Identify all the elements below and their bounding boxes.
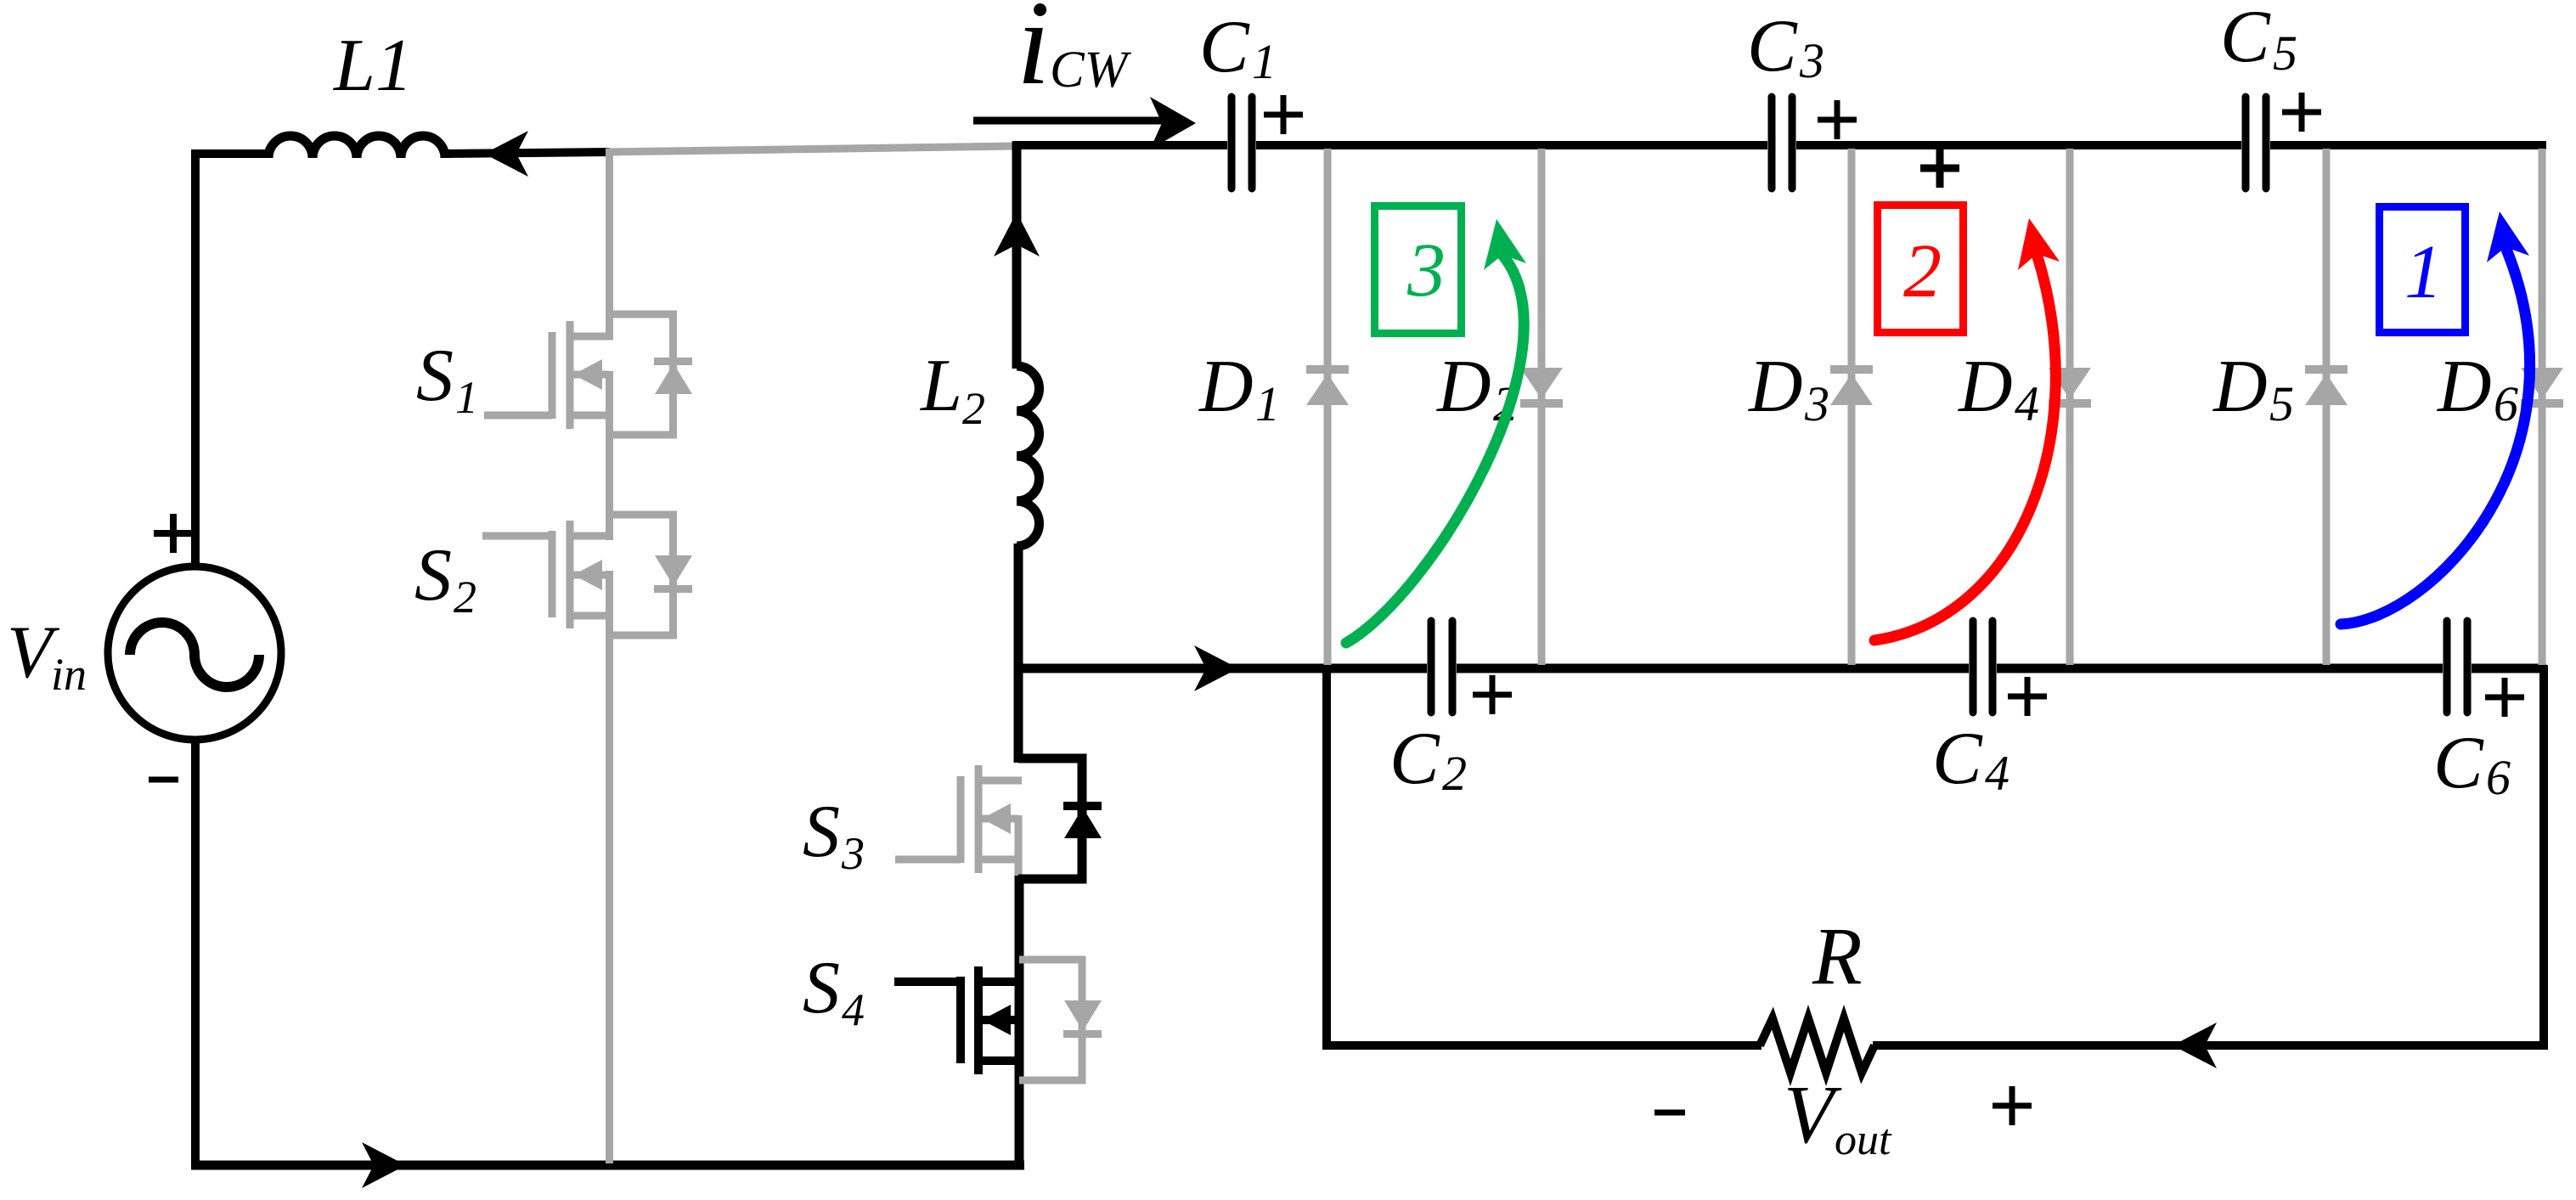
wire: L2 branch vertical from top rail with up arrowhead — [994, 142, 1040, 369]
svg-text:2: 2 — [1442, 746, 1467, 801]
wire: D3 branch rail — [1848, 149, 1856, 665]
current arrow iCW above top rail — [973, 97, 1196, 149]
label R — [1812, 910, 1863, 1001]
wire: output loop bottom left segment — [1322, 1041, 1761, 1050]
diode D2 (down) — [1520, 368, 1563, 408]
diode D4 (down) — [2049, 368, 2091, 408]
label Vin — [7, 611, 87, 700]
svg-text:S: S — [414, 534, 452, 617]
svg-text:out: out — [1835, 1116, 1892, 1164]
AC source Vin — [108, 566, 281, 740]
wire: Vin - terminal down to bottom-left corner — [191, 738, 200, 1165]
transistor S1 (gray, body diode up) — [484, 314, 692, 435]
minus sign Vin — [149, 777, 178, 783]
label Vout — [1784, 1069, 1892, 1164]
label S2 — [414, 534, 476, 623]
label D4 — [1958, 346, 2039, 431]
svg-text:1: 1 — [455, 372, 478, 423]
svg-text:4: 4 — [1985, 746, 2010, 801]
plus sign Vin — [154, 514, 193, 553]
loop number 2 — [1903, 229, 1942, 313]
svg-text:1: 1 — [1255, 376, 1280, 431]
plus sign C6 — [2485, 678, 2524, 717]
wire: top rail from C3 to C5 — [1796, 141, 2241, 149]
wire: mid rail from C4 to C6 — [1997, 664, 2443, 673]
loop box 3 (green) — [1375, 206, 1462, 334]
svg-text:L1: L1 — [332, 25, 413, 107]
wire: D5 branch rail — [2323, 149, 2331, 665]
svg-text:R: R — [1812, 910, 1863, 1001]
svg-text:D: D — [2212, 346, 2268, 428]
wire: D1 branch rail — [1324, 149, 1332, 665]
resistor R — [1760, 1018, 1874, 1073]
svg-text:5: 5 — [2269, 376, 2294, 431]
svg-text:3: 3 — [1799, 33, 1824, 88]
svg-text:C: C — [1389, 718, 1440, 800]
svg-text:V: V — [1784, 1069, 1842, 1160]
wire: mid rail from C2 to C4 — [1457, 664, 1969, 673]
wire: D6 branch rail — [2539, 149, 2546, 665]
svg-text:C: C — [1747, 5, 1798, 87]
svg-text:in: in — [51, 649, 87, 700]
svg-text:CW: CW — [1050, 42, 1132, 99]
svg-text:C: C — [2433, 722, 2484, 804]
svg-text:2: 2 — [454, 572, 476, 623]
label L1 — [332, 25, 413, 107]
label S3 — [803, 791, 865, 879]
label D1 — [1198, 346, 1280, 431]
wire: gray S-branch between S1 and S2 — [606, 431, 613, 540]
wire: gray S1/S2 branch vertical, top rail to S1 drain — [606, 149, 613, 340]
svg-text:2: 2 — [962, 383, 985, 434]
svg-text:4: 4 — [2015, 376, 2039, 431]
loop arrow 3 (green) — [1346, 219, 1526, 643]
label C4 — [1932, 718, 2010, 801]
label C2 — [1389, 718, 1467, 801]
svg-text:S: S — [803, 947, 840, 1029]
wire: L2 to mid-rail junction and down to S3 drain — [1014, 544, 1023, 763]
capacitor C3 — [1772, 97, 1792, 189]
capacitor C4 — [1973, 621, 1993, 713]
label D6 — [2437, 346, 2518, 431]
svg-text:D: D — [1748, 346, 1803, 428]
diode D5 (up) — [2305, 365, 2348, 405]
svg-text:C: C — [1932, 718, 1983, 800]
wire: output loop left vertical from D1 node — [1322, 668, 1331, 1045]
loop arrow 2 (red) — [1874, 218, 2060, 640]
wire: mid rail from C6 to right corner — [2472, 664, 2546, 673]
svg-text:D: D — [2437, 346, 2492, 428]
label D5 — [2212, 346, 2294, 431]
capacitor C1 — [1232, 97, 1252, 189]
svg-text:3: 3 — [1804, 376, 1829, 431]
label D3 — [1748, 346, 1829, 431]
svg-text:6: 6 — [2494, 376, 2518, 431]
wire: gray S-branch from S2 source down to bottom rail — [606, 632, 613, 1163]
transistor S3 (gray body, black diode conducting) — [895, 758, 1102, 879]
wire: gray top rail from S-branch node to L2 branch node — [606, 146, 1017, 152]
wire: D4 branch rail — [2066, 149, 2074, 665]
wire: black main from S3 source through S4 down to bottom rail corner — [1015, 876, 1024, 1169]
svg-text:6: 6 — [2486, 750, 2511, 805]
diode D1 (up) — [1306, 365, 1349, 405]
wire: output loop bottom right segment with left arrowhead — [1873, 1023, 2546, 1068]
label iCW — [1017, 0, 1132, 110]
wire: L1 to S-branch node with left arrowhead — [443, 131, 610, 177]
plus sign Vout — [1993, 1086, 2032, 1125]
loop box 2 (red) — [1878, 206, 1964, 333]
svg-text:3: 3 — [1406, 228, 1446, 313]
wire: output loop right vertical — [2539, 665, 2548, 1050]
plus sign C3 — [1818, 100, 1857, 139]
wire: bottom rail from Vin loop to S4 source with right arrowhead — [191, 1142, 1024, 1188]
svg-text:S: S — [803, 791, 840, 873]
capacitor C2 — [1431, 621, 1452, 713]
wire: mid rail from L2 junction to C2 with right arrowhead — [1017, 645, 1427, 691]
plus sign C1 — [1264, 95, 1303, 134]
wire: D2 branch rail — [1538, 149, 1546, 665]
loop number 1 — [2404, 230, 2443, 314]
minus sign Vout — [1654, 1110, 1685, 1116]
loop number 3 — [1406, 228, 1446, 313]
label L2 — [919, 345, 985, 434]
plus sign C5 — [2282, 93, 2321, 132]
svg-text:D: D — [1198, 346, 1254, 428]
svg-text:S: S — [416, 335, 454, 417]
svg-text:5: 5 — [2273, 25, 2297, 81]
plus sign C4 — [2008, 677, 2047, 716]
plus sign at D4 top node — [1920, 149, 1959, 188]
loop box 1 (blue) — [2380, 207, 2466, 333]
svg-text:2: 2 — [1903, 229, 1942, 313]
transistor S4 (black active, gray body diode down) — [894, 960, 1102, 1080]
svg-text:L: L — [919, 345, 962, 427]
svg-text:4: 4 — [842, 984, 865, 1035]
wire: top rail from C5 to top-right corner — [2270, 141, 2546, 149]
diode D6 (down) — [2521, 368, 2563, 408]
label S4 — [803, 947, 865, 1035]
label S1 — [416, 335, 478, 423]
svg-text:1: 1 — [1252, 34, 1277, 89]
svg-text:D: D — [1958, 346, 2013, 428]
svg-text:D: D — [1436, 346, 1491, 428]
label C6 — [2433, 722, 2511, 805]
svg-text:C: C — [1199, 6, 1250, 88]
inductor L2 — [1017, 366, 1040, 546]
label C3 — [1747, 5, 1824, 88]
transistor S2 (gray, flipped, body diode down) — [482, 515, 692, 635]
inductor L1 — [268, 136, 445, 158]
wire: top rail from L2 node to C1 — [1012, 141, 1227, 149]
label C5 — [2220, 0, 2297, 81]
capacitor C6 — [2447, 621, 2467, 713]
wire: left vertical from top rail down to Vin + terminal — [191, 149, 200, 566]
svg-text:1: 1 — [2404, 230, 2443, 314]
capacitor C5 — [2246, 97, 2266, 189]
diode D3 (up) — [1830, 365, 1873, 405]
label C1 — [1199, 6, 1277, 89]
wire: top-left rail from corner to L1 — [191, 149, 270, 158]
wire: top rail from C1 to C3 — [1256, 141, 1767, 149]
label D2 — [1436, 346, 1518, 431]
loop arrow 1 (blue) — [2341, 211, 2530, 624]
svg-text:3: 3 — [841, 828, 865, 879]
plus sign C2 — [1473, 675, 1512, 714]
svg-text:i: i — [1017, 0, 1050, 110]
svg-text:C: C — [2220, 0, 2271, 78]
